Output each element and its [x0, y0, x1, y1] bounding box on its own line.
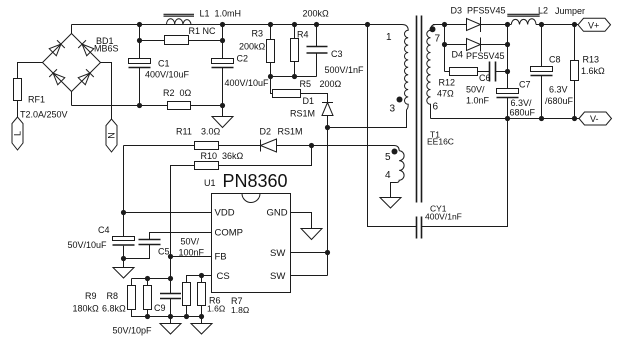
wire: C4/C5 ground bus — [124, 245, 150, 259]
wire: GND pin to ground — [291, 213, 312, 229]
svg-text:L1 1.0mH: L1 1.0mH — [200, 9, 242, 19]
wire: feedback divider top bus — [132, 279, 171, 286]
transformer aux winding pins 5-4 — [391, 151, 405, 198]
svg-text:1.6kΩ: 1.6kΩ — [581, 66, 605, 76]
wire: R1 right — [189, 40, 223, 42]
wire: SW2 pin — [291, 275, 328, 277]
svg-text:FB: FB — [215, 252, 227, 263]
inductor L2 core bars — [507, 14, 539, 16]
svg-text:PFS5V45: PFS5V45 — [466, 51, 505, 61]
node: SW1 junction — [325, 250, 330, 255]
node: aux rectified node — [309, 143, 314, 148]
svg-text:MB6S: MB6S — [94, 44, 119, 54]
node: C6 right — [505, 69, 510, 74]
node: pin7/D3 — [442, 22, 447, 27]
node: D3 cathode bus top — [505, 22, 510, 27]
wire: clamp to R5 — [271, 77, 273, 94]
wire: fuse to L terminal — [17, 101, 19, 118]
resistor R4 — [291, 25, 299, 77]
svg-text:C2: C2 — [237, 54, 249, 64]
svg-text:180kΩ: 180kΩ — [73, 304, 100, 314]
node: FB bus — [168, 276, 173, 281]
svg-text:1.0nF: 1.0nF — [466, 96, 490, 106]
svg-text:RF1: RF1 — [28, 95, 45, 105]
svg-text:1: 1 — [386, 32, 392, 43]
wire: CY1 to secondary ground — [422, 119, 508, 227]
svg-text:R11: R11 — [176, 127, 192, 137]
bridge diode top-left — [49, 40, 65, 56]
svg-text:R13: R13 — [583, 55, 600, 65]
svg-text:400V/10uF: 400V/10uF — [145, 70, 190, 80]
svg-text:D4: D4 — [452, 50, 464, 60]
svg-text:R12: R12 — [439, 78, 456, 88]
capacitor C5 — [139, 240, 161, 245]
svg-text:EE16C: EE16C — [427, 137, 454, 147]
svg-text:1.6Ω: 1.6Ω — [207, 304, 225, 314]
resistor R8 — [144, 286, 152, 310]
node: R13 bottom — [572, 116, 577, 121]
inductor L1 — [167, 19, 192, 25]
svg-text:500V/1nF: 500V/1nF — [325, 65, 365, 75]
wire: CS pin bus — [187, 276, 212, 283]
node: R1 left — [137, 38, 142, 43]
wire: C9 bottom stem — [170, 299, 172, 317]
node: FB junction — [168, 254, 173, 259]
svg-text:200kΩ: 200kΩ — [239, 42, 266, 52]
svg-text:PN8360: PN8360 — [223, 171, 288, 191]
svg-text:N: N — [107, 132, 117, 139]
svg-text:C1: C1 — [158, 59, 170, 69]
resistor R12 — [445, 68, 490, 76]
resistor R5 — [273, 90, 301, 98]
svg-text:V+: V+ — [588, 20, 599, 30]
fuse RF1 — [14, 79, 22, 101]
wire: VDD pin — [124, 212, 212, 214]
capacitor C4 (polarized) — [113, 237, 135, 259]
node: C8 bottom — [539, 116, 544, 121]
node: VDD junction — [121, 210, 126, 215]
svg-text:6.3V/: 6.3V/ — [511, 98, 533, 108]
node: clamp R4 — [292, 74, 297, 79]
svg-text:R3: R3 — [252, 29, 264, 39]
svg-text:RS1M: RS1M — [278, 127, 303, 137]
node: rail x139.5 — [137, 22, 142, 27]
svg-text:L: L — [13, 131, 23, 136]
svg-text:6: 6 — [433, 102, 439, 113]
secondary polarity dot — [430, 26, 436, 32]
diode D4 — [467, 38, 481, 52]
wire: drain vertical to SW — [327, 128, 329, 276]
svg-text:L2: L2 — [538, 6, 548, 16]
inductor L2 — [511, 19, 536, 25]
capacitor C1 (polarized) — [129, 59, 151, 68]
capacitor C3 — [307, 25, 328, 77]
ground: input rail — [212, 106, 233, 128]
svg-text:R1 NC: R1 NC — [189, 26, 217, 36]
wire: D4 branch vertical — [444, 25, 446, 72]
svg-text:GND: GND — [267, 208, 288, 219]
transformer secondary winding pins 7-6 — [427, 25, 436, 119]
resistor R1 — [165, 36, 189, 45]
wire: R10 left to FB vertical — [171, 166, 195, 294]
wire: D4 line — [445, 44, 508, 46]
diode D3 — [467, 17, 481, 32]
wire: VDD supply line (R11/D2 row) — [124, 146, 400, 151]
svg-text:400V/10uF: 400V/10uF — [225, 78, 270, 88]
diode D1 — [322, 103, 333, 128]
node: D4 cathode bus — [505, 42, 510, 47]
wire: R11 left vertical to VDD/C4 — [123, 146, 125, 237]
node: R6 bottom — [184, 314, 189, 319]
svg-text:R5: R5 — [300, 79, 312, 89]
svg-text:COMP: COMP — [215, 228, 244, 239]
svg-text:R4: R4 — [297, 30, 309, 40]
svg-text:RS1M: RS1M — [290, 109, 315, 119]
wire: bottom ground bus — [132, 306, 202, 317]
terminal L — [12, 117, 23, 150]
capacitor C6 — [490, 62, 508, 82]
svg-text:C9: C9 — [154, 303, 166, 313]
resistor R2 — [168, 102, 191, 110]
node: R1 right — [220, 38, 225, 43]
wire: drain node to transformer pin3 — [328, 110, 407, 128]
resistor R6 — [183, 283, 191, 306]
svg-text:R10 36kΩ: R10 36kΩ — [201, 151, 244, 161]
wire: lower DC- rail — [72, 105, 223, 107]
node: C1 bottom junction — [137, 103, 142, 108]
svg-text:200Ω: 200Ω — [320, 79, 342, 89]
wire: rectified bus vertical — [507, 25, 509, 89]
resistor R3 — [267, 25, 275, 77]
IC U1 PN8360 body — [212, 194, 291, 293]
wire: C5 to COMP — [150, 233, 212, 240]
svg-text:47Ω: 47Ω — [437, 89, 454, 99]
svg-text:1.8Ω: 1.8Ω — [231, 305, 249, 315]
svg-text:5: 5 — [385, 152, 391, 163]
terminal V+ — [578, 18, 611, 31]
node: R13 top — [572, 22, 577, 27]
svg-text:CS: CS — [217, 271, 230, 282]
node: R7 bottom — [199, 314, 204, 319]
bridge diode bottom-left — [49, 69, 65, 85]
node: C2 bottom junction — [220, 103, 225, 108]
resistor R13 — [571, 25, 579, 119]
node: D4 anode — [442, 42, 447, 47]
node: C8 top — [539, 22, 544, 27]
resistor R9 — [128, 286, 136, 310]
svg-text:U1: U1 — [204, 178, 216, 188]
svg-text:R2 0Ω: R2 0Ω — [163, 88, 192, 98]
svg-text:R8: R8 — [107, 291, 119, 301]
ground: C9 bus — [160, 317, 181, 335]
transformer primary winding pins 1-3 — [402, 25, 408, 110]
svg-text:400V/1nF: 400V/1nF — [425, 212, 462, 222]
svg-text:V-: V- — [590, 114, 599, 124]
wire: primary top rail — [72, 24, 403, 26]
diode D2 — [261, 139, 277, 152]
wire: C2 branch vertical — [222, 25, 224, 106]
terminal V- — [579, 112, 612, 125]
resistor R7 — [198, 283, 206, 306]
svg-text:50V/10pF: 50V/10pF — [113, 326, 153, 336]
svg-text:7: 7 — [435, 34, 441, 45]
capacitor C9 — [160, 294, 181, 299]
svg-text:C6: C6 — [479, 73, 491, 83]
node: R7 top on CS — [199, 273, 204, 278]
transformer T1 core — [417, 16, 422, 203]
svg-text:C4: C4 — [98, 225, 110, 235]
resistor R10 — [195, 162, 219, 170]
svg-text:6.3V: 6.3V — [549, 85, 568, 95]
svg-text:T2.0A/250V: T2.0A/250V — [20, 110, 68, 120]
svg-text:D1: D1 — [303, 96, 315, 106]
wire: V- output rail — [431, 118, 580, 120]
svg-text:50V/10uF: 50V/10uF — [68, 240, 108, 250]
svg-text:VDD: VDD — [215, 208, 235, 219]
svg-text:C3: C3 — [331, 49, 343, 59]
svg-text:SW: SW — [270, 248, 285, 259]
wire: bridge left vertex to fuse — [18, 63, 43, 79]
node: rail R3 — [268, 22, 273, 27]
terminal N — [106, 119, 117, 152]
node: R8 top — [145, 276, 150, 281]
wire: R5 to D1 — [301, 94, 328, 103]
svg-text:C8: C8 — [549, 55, 561, 65]
capacitor CY1 — [417, 217, 422, 239]
svg-text:Jumper: Jumper — [555, 6, 585, 16]
wire: bridge bottom stem — [71, 92, 73, 106]
capacitor C2 (polarized) — [212, 59, 234, 68]
capacitor C8 (polarized) — [531, 25, 553, 119]
capacitor C7 (polarized) — [497, 89, 519, 119]
svg-text:/680uF: /680uF — [545, 96, 574, 106]
wire: pin7 output line — [433, 24, 578, 26]
ground: IC GND — [301, 229, 322, 240]
node: clamp R3 — [268, 74, 273, 79]
wire: bridge top stem — [71, 25, 73, 34]
node: rail to CY1 vertical — [365, 22, 370, 27]
bridge diode top-right — [78, 40, 94, 56]
node: rail x222.5 — [220, 22, 225, 27]
wire: R1 left — [140, 40, 165, 42]
inductor L1 core bars — [164, 14, 195, 16]
svg-text:D3 PFS5V45: D3 PFS5V45 — [451, 6, 506, 16]
svg-text:680uF: 680uF — [510, 108, 536, 118]
wire: SW1 pin — [291, 252, 328, 254]
wire: clamp bottom bus — [271, 76, 317, 78]
svg-text:200kΩ: 200kΩ — [303, 9, 330, 19]
wire: node down to R10 — [219, 146, 312, 166]
bridge rectifier BD1 diamond — [43, 34, 101, 92]
node: rail C3 — [314, 22, 319, 27]
wire: FB pin — [171, 256, 212, 258]
svg-text:C7: C7 — [519, 80, 531, 90]
wire: CY1 primary-side vertical — [368, 25, 417, 227]
svg-text:3: 3 — [390, 104, 396, 115]
bridge diode bottom-right — [78, 69, 94, 85]
svg-text:3.0Ω: 3.0Ω — [201, 127, 221, 137]
wire: C1 branch vertical — [139, 25, 141, 106]
svg-text:SW: SW — [270, 271, 285, 282]
svg-text:6.8kΩ: 6.8kΩ — [102, 304, 126, 314]
svg-text:4: 4 — [385, 170, 391, 181]
svg-text:50V/: 50V/ — [181, 237, 200, 247]
node: drain node — [325, 125, 330, 130]
wire: bridge right vertex to N terminal — [101, 63, 112, 120]
node: rail R4 — [292, 22, 297, 27]
aux polarity dot — [392, 149, 398, 155]
node: C4 bottom junction — [121, 256, 126, 261]
ground: aux winding — [380, 198, 401, 209]
node: C7 bottom — [505, 116, 510, 121]
primary polarity dot — [397, 97, 403, 103]
node: C9 bottom — [168, 314, 173, 319]
svg-text:R9: R9 — [85, 291, 97, 301]
ground: C4 — [113, 259, 134, 279]
svg-text:50V/: 50V/ — [466, 85, 485, 95]
ground: R7 — [191, 317, 212, 335]
node: R8 bottom — [145, 314, 150, 319]
svg-text:C5: C5 — [158, 247, 170, 257]
svg-text:D2: D2 — [260, 127, 272, 137]
resistor R11 — [195, 142, 219, 150]
